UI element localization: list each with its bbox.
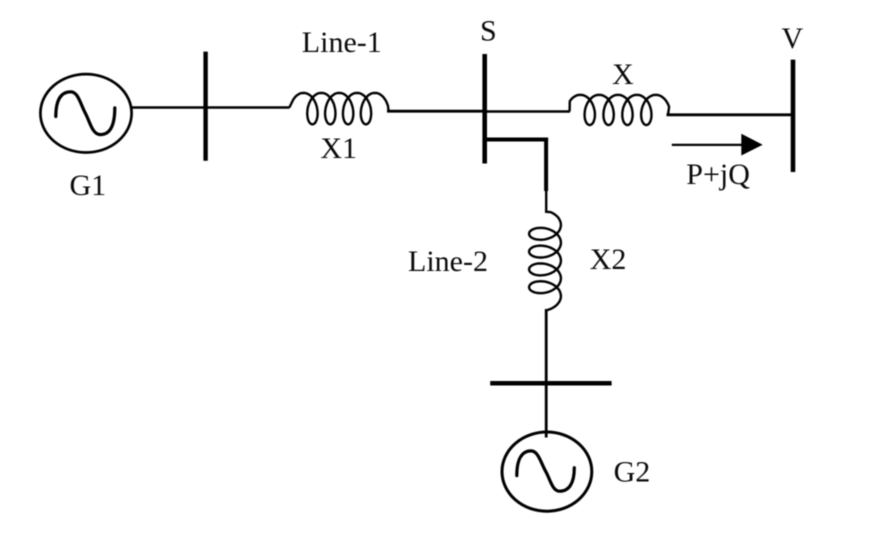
generator G2	[502, 432, 592, 511]
node V bus bar	[791, 60, 796, 172]
inductor X1 (Line-1 reactance coil)	[289, 93, 388, 124]
svg-text:S: S	[480, 14, 497, 47]
svg-text:V: V	[782, 22, 804, 55]
sine symbol in G2	[517, 451, 575, 491]
arrow P+jQ (power flow)	[672, 144, 743, 146]
svg-text:X1: X1	[320, 132, 357, 165]
branch wire from bus S (vertical drop)	[544, 138, 548, 192]
wire X2 coil to G2	[545, 309, 548, 438]
bus bar at G2	[490, 381, 611, 386]
svg-text:X: X	[612, 58, 634, 91]
wire X coil to bus V	[667, 113, 795, 116]
svg-text:X2: X2	[590, 243, 627, 276]
inductor X (line reactance)	[570, 95, 670, 125]
inductor X2 (Line-2 reactance coil, vertical)	[529, 212, 561, 311]
wire bus S to X coil	[485, 110, 570, 113]
node S bus bar	[482, 54, 487, 164]
bus bar (left, at G1)	[203, 52, 207, 161]
sine symbol in G1	[56, 92, 115, 135]
branch wire from bus S (horizontal)	[485, 138, 548, 142]
svg-text:G1: G1	[70, 169, 107, 202]
svg-text:P+jQ: P+jQ	[686, 158, 750, 191]
wire X1 coil to bus S	[387, 110, 486, 113]
svg-text:G2: G2	[614, 455, 651, 488]
svg-text:Line-2: Line-2	[408, 245, 488, 278]
wire G1 to Line-1 coil	[131, 106, 290, 109]
wire down to X2 coil	[545, 190, 547, 213]
svg-text:Line-1: Line-1	[302, 26, 382, 59]
generator G1	[40, 74, 131, 152]
